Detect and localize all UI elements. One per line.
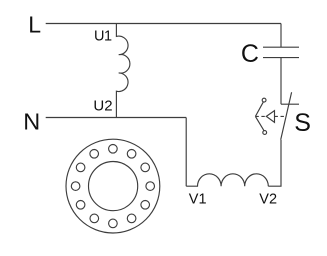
- wire: top rail corner down to capacitor: [280, 24, 282, 48]
- wire: switch to auxiliary winding V2: [268, 140, 281, 187]
- actuator top circle: [262, 98, 266, 102]
- centrifugal actuator of switch S: [255, 98, 286, 134]
- svg-text:V1: V1: [189, 192, 207, 208]
- wire: L top rail: [46, 23, 281, 25]
- svg-text:L: L: [28, 12, 41, 38]
- switch S blade: [281, 92, 292, 140]
- stator slot circles: [71, 145, 154, 228]
- capacitor C: [263, 47, 299, 57]
- wire: N rail: [46, 117, 187, 119]
- actuator dashed link: [255, 115, 286, 117]
- actuator triangle: [266, 111, 274, 123]
- stator outer circle: [66, 139, 160, 233]
- svg-text:U2: U2: [93, 98, 112, 115]
- wire: N rail drop to V1: [185, 118, 187, 187]
- switch S fixed contact: [281, 103, 299, 105]
- actuator vee lines: [255, 102, 264, 131]
- inductor U1-U2 main winding: [116, 24, 130, 118]
- actuator bottom circle: [263, 131, 267, 135]
- motor stator symbol: [66, 139, 160, 233]
- inductor V1-V2 auxiliary winding: [186, 174, 268, 186]
- wire: capacitor to switch: [280, 58, 282, 105]
- svg-text:N: N: [23, 109, 40, 135]
- svg-text:S: S: [294, 109, 311, 137]
- svg-text:C: C: [241, 40, 259, 68]
- svg-text:U1: U1: [94, 28, 112, 44]
- stator inner circle: [89, 162, 138, 211]
- svg-text:V2: V2: [259, 192, 277, 208]
